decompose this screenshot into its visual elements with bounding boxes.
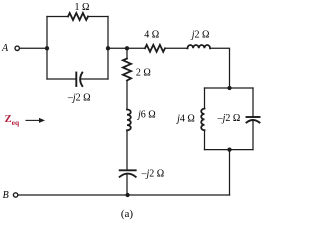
wire right box top rail <box>205 87 254 89</box>
wire 4ohm to j2ohm <box>165 47 188 49</box>
arrow Zeq <box>26 119 40 121</box>
wire right box right side lower <box>252 120 254 150</box>
wire right box left side lower <box>204 130 206 149</box>
wire A to left box <box>20 47 47 49</box>
svg-text:–j2 Ω: –j2 Ω <box>67 93 91 104</box>
wire left box bottom-left segment <box>47 78 76 80</box>
svg-text:Zeq: Zeq <box>5 114 20 127</box>
svg-text:(a): (a) <box>121 208 134 220</box>
inductor L j6ohm <box>127 110 131 131</box>
svg-text:j6 Ω: j6 Ω <box>136 109 156 120</box>
wire right box right side upper <box>252 88 254 117</box>
node middle junction <box>125 46 129 50</box>
wire bottom rail <box>18 194 229 196</box>
svg-text:A: A <box>1 43 9 54</box>
wire j6ohm to cap <box>126 130 128 170</box>
resistor R 1ohm <box>68 13 88 20</box>
node right box top <box>227 86 231 90</box>
wire left box right side <box>107 17 109 80</box>
wire right branch down <box>229 150 231 195</box>
node left box output <box>106 46 110 50</box>
terminal A circle <box>15 46 19 50</box>
svg-text:j2 Ω: j2 Ω <box>190 30 210 41</box>
node bottom junction <box>125 193 129 197</box>
wire node to middle junction <box>108 47 127 49</box>
inductor L j4ohm <box>201 109 204 131</box>
svg-text:j4 Ω: j4 Ω <box>175 114 195 125</box>
capacitor C -j2ohm middle curved plate <box>120 174 136 177</box>
wire left box top-right segment <box>88 16 108 18</box>
svg-text:2 Ω: 2 Ω <box>136 67 151 78</box>
resistor R 4ohm <box>145 45 165 52</box>
svg-text:B: B <box>3 190 9 201</box>
svg-text:4 Ω: 4 Ω <box>144 30 159 41</box>
node right box bottom <box>227 147 231 151</box>
capacitor C -j2ohm left plate <box>75 73 77 87</box>
wire right box left side upper <box>204 88 206 109</box>
wire left box left side <box>46 17 48 80</box>
node left box input <box>45 46 49 50</box>
inductor L j2ohm <box>188 45 211 48</box>
svg-text:–j2 Ω: –j2 Ω <box>217 113 241 124</box>
wire 2ohm to j6ohm <box>126 81 128 110</box>
capacitor C -j2ohm middle top plate <box>120 169 136 171</box>
wire left box bottom-right segment <box>81 78 108 80</box>
capacitor C -j2ohm right curved plate <box>247 120 260 123</box>
wire left box top-left segment <box>47 16 68 18</box>
wire j2ohm to top-right corner <box>210 48 230 88</box>
wire right box bottom rail <box>205 149 254 151</box>
arrow Zeq head <box>39 118 45 123</box>
terminal B circle <box>13 193 17 197</box>
svg-text:1 Ω: 1 Ω <box>75 2 90 13</box>
wire cap to bottom <box>126 174 128 195</box>
wire junction to 4ohm <box>127 47 145 49</box>
resistor R 2ohm <box>123 59 131 81</box>
capacitor C -j2ohm curved plate <box>80 73 82 87</box>
capacitor C -j2ohm right top plate <box>247 116 260 118</box>
svg-text:–j2 Ω: –j2 Ω <box>140 168 164 179</box>
wire middle branch upper <box>126 48 128 58</box>
